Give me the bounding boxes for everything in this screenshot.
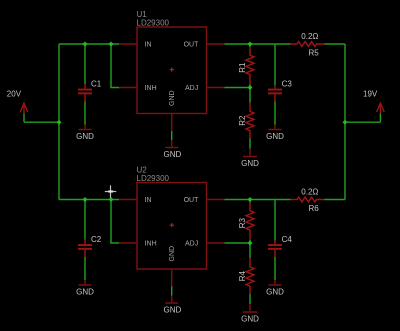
svg-text:0.2Ω: 0.2Ω [301, 188, 318, 197]
svg-text:GND: GND [164, 150, 182, 159]
svg-text:GND: GND [164, 306, 182, 315]
svg-text:GND: GND [266, 132, 284, 141]
svg-text:GND: GND [266, 288, 284, 297]
svg-text:GND: GND [241, 159, 259, 168]
svg-text:ADJ: ADJ [185, 241, 198, 248]
svg-text:C3: C3 [282, 80, 293, 89]
svg-text:20V: 20V [7, 89, 22, 98]
svg-text:U1: U1 [137, 10, 148, 19]
svg-text:GND: GND [241, 314, 259, 323]
svg-text:OUT: OUT [184, 41, 200, 48]
svg-text:GND: GND [169, 90, 176, 106]
svg-text:R4: R4 [238, 271, 247, 282]
svg-text:INH: INH [145, 85, 157, 92]
svg-text:C2: C2 [91, 235, 102, 244]
svg-text:GND: GND [169, 246, 176, 262]
svg-text:R3: R3 [238, 218, 247, 229]
svg-text:19V: 19V [363, 90, 378, 99]
svg-text:LD29300: LD29300 [137, 174, 170, 183]
svg-text:C1: C1 [91, 80, 102, 89]
svg-text:R1: R1 [238, 62, 247, 73]
svg-text:C4: C4 [282, 235, 293, 244]
svg-text:U2: U2 [137, 166, 148, 175]
svg-text:GND: GND [76, 132, 94, 141]
svg-text:OUT: OUT [184, 197, 200, 204]
svg-text:R6: R6 [309, 204, 320, 213]
svg-text:IN: IN [145, 197, 152, 204]
svg-text:GND: GND [76, 288, 94, 297]
svg-text:0.2Ω: 0.2Ω [301, 32, 318, 41]
svg-text:INH: INH [145, 241, 157, 248]
svg-text:R5: R5 [309, 49, 320, 58]
svg-text:LD29300: LD29300 [137, 19, 170, 28]
svg-text:R2: R2 [238, 115, 247, 126]
svg-text:IN: IN [145, 41, 152, 48]
svg-text:ADJ: ADJ [185, 85, 198, 92]
